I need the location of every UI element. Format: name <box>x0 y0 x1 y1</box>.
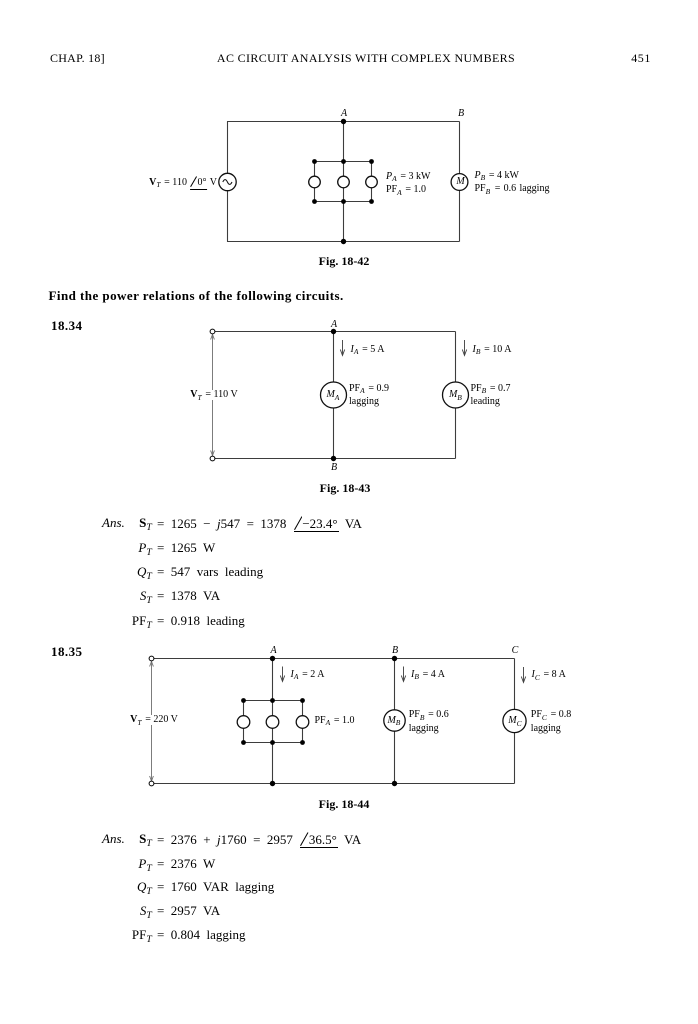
current arrow IB <box>401 667 405 682</box>
answers 18.34 <box>102 516 125 529</box>
node B junction dot <box>331 456 336 461</box>
wire: lamp-bank bottom rail <box>315 201 372 203</box>
lamp 3 <box>366 176 378 188</box>
answers 18.35 <box>102 832 125 845</box>
junction dot bottom of lamp stem <box>270 781 275 786</box>
junction dots lamp bottom rail <box>241 740 305 745</box>
wire: motor MB branch <box>394 659 396 784</box>
motor MB letter <box>387 716 401 726</box>
wire: motor MA branch <box>333 332 335 459</box>
running head left <box>50 52 105 64</box>
lamp 3 <box>296 716 309 729</box>
section heading <box>49 289 344 302</box>
wire: lamp 3 leads <box>371 162 373 202</box>
wire: lamp-bank lower stem to bottom conductor <box>343 202 345 242</box>
current arrow IB <box>462 340 466 356</box>
wire: top conductor <box>153 658 515 660</box>
caption Fig. 18-42 <box>319 255 370 267</box>
value label IC = 8 A <box>532 670 566 680</box>
node B junction dot <box>392 656 397 661</box>
value label PFB = 0.7 leading <box>471 382 511 409</box>
value label PB = 4 kW <box>475 171 519 181</box>
wire: right branch with motor <box>459 122 461 242</box>
current arrow IA <box>280 667 284 682</box>
value label IB = 10 A <box>473 345 512 355</box>
motor MB circle <box>443 382 469 408</box>
wire: lamp 3 leads <box>302 701 304 743</box>
terminal top-left <box>210 329 215 334</box>
value label PFB = 0.6 lagging <box>409 708 449 735</box>
node B label <box>458 109 464 119</box>
value label PFB = 0.6 lagging <box>475 184 550 194</box>
value label VT = 110 V <box>188 390 239 400</box>
junction dots lamp top rail <box>241 698 305 703</box>
node B label <box>331 463 337 473</box>
lamp 2 <box>338 176 350 188</box>
node A label <box>270 646 276 656</box>
junction dot bottom of MB branch <box>392 781 397 786</box>
motor MB circle <box>384 710 405 731</box>
value label PFA = 0.9 lagging <box>349 382 389 409</box>
ac source VT circle <box>219 173 236 190</box>
wire: bottom return conductor <box>227 241 460 243</box>
wire: lamp-bank top rail <box>244 700 303 702</box>
wire: right branch with motor MC <box>514 659 516 784</box>
wire: lamp 1 leads <box>243 701 245 743</box>
node A junction dot <box>341 119 346 124</box>
wire: lamp 2 leads <box>343 162 345 202</box>
wire: left branch with source <box>227 122 229 242</box>
value label PA = 3 kW <box>386 172 430 182</box>
wire: top conductor <box>214 331 456 333</box>
value label PFC = 0.8 lagging <box>531 708 571 735</box>
current arrow IC <box>521 667 525 683</box>
value label IA = 5 A <box>351 345 385 355</box>
junction dot bottom of lamp stem <box>341 239 346 244</box>
caption Fig. 18-44 <box>319 798 370 810</box>
wire: bottom conductor <box>214 458 456 460</box>
value label IA = 2 A <box>291 670 325 680</box>
current arrow IA <box>340 340 344 356</box>
motor M circle <box>451 174 468 191</box>
terminal bottom-left <box>210 456 215 461</box>
motor MB letter <box>449 390 463 400</box>
node B label <box>392 646 398 656</box>
node A junction dot <box>331 329 336 334</box>
junction dots lamp bottom rail <box>312 199 374 204</box>
ac source sine symbol <box>223 180 232 185</box>
node A label <box>341 109 347 119</box>
motor MA circle <box>321 382 347 408</box>
source voltage arrow line between terminals <box>211 335 215 456</box>
motor MC letter <box>508 716 523 726</box>
wire: top conductor from source to node B <box>227 121 460 123</box>
wire: right branch with motor MB <box>455 332 457 459</box>
node C label <box>512 646 519 656</box>
lamp 1 <box>309 176 321 188</box>
value label PFA = 1.0 <box>386 185 426 195</box>
value label VT = 220 V <box>128 715 180 725</box>
motor MA letter <box>326 390 340 400</box>
running head title <box>217 52 515 64</box>
terminal top-left <box>149 656 154 661</box>
lamp 2 <box>266 716 279 729</box>
motor MC circle <box>503 709 526 732</box>
motor M letter <box>456 177 464 187</box>
problem number 18.35 <box>51 645 83 658</box>
junction dots lamp top rail <box>312 159 374 164</box>
value label PFA = 1.0 <box>315 716 355 726</box>
wire: lamp-bank stem from node A <box>272 659 274 701</box>
value label VT = 110 ang 0 V <box>149 176 217 190</box>
wire: bottom conductor <box>153 783 515 785</box>
problem number 18.34 <box>51 319 83 332</box>
value label IB = 4 A <box>411 670 445 680</box>
source voltage arrow line between terminals <box>150 662 154 782</box>
node A label <box>331 320 337 330</box>
lamp 1 <box>237 716 250 729</box>
terminal bottom-left <box>149 781 154 786</box>
wire: lamp-bank lower stem <box>272 743 274 784</box>
wire: lamp 1 leads <box>314 162 316 202</box>
node A junction dot <box>270 656 275 661</box>
wire: lamp-bank top rail <box>315 161 372 163</box>
wire: lamp 2 leads <box>272 701 274 743</box>
wire: lamp-bank bottom rail <box>244 742 303 744</box>
caption Fig. 18-43 <box>320 482 371 494</box>
page number 451 <box>631 52 651 64</box>
wire: lamp-bank stem from node A <box>343 122 345 162</box>
